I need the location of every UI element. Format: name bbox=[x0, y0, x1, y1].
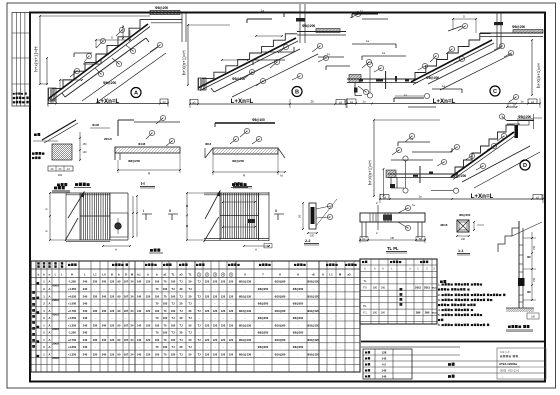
svg-text:240: 240 bbox=[83, 345, 88, 349]
stair B landing wall bbox=[296, 4, 305, 43]
section cut marks bbox=[142, 209, 178, 220]
edge detail labels bbox=[527, 255, 531, 294]
svg-text:Φ10@130: Φ10@130 bbox=[239, 280, 252, 284]
svg-text:6.: 6. bbox=[438, 323, 441, 327]
stair A landing right wall bbox=[182, 13, 186, 42]
1-1 column square bbox=[457, 220, 469, 232]
svg-text:·: · bbox=[215, 317, 216, 320]
table data text bbox=[37, 280, 341, 360]
svg-text:+2.700: +2.700 bbox=[68, 309, 77, 313]
svg-text:3Φ: 3Φ bbox=[299, 215, 302, 218]
2-2 leaders and callouts bbox=[316, 199, 337, 226]
title block bbox=[361, 342, 546, 380]
II-II slab bbox=[205, 148, 285, 158]
svg-text:4 5: 4 5 bbox=[382, 363, 386, 367]
stair B distribution rebar diagonal bbox=[232, 54, 318, 97]
svg-text:100: 100 bbox=[155, 323, 160, 327]
svg-text:b1: b1 bbox=[137, 273, 141, 277]
stair A tread dimensions bbox=[59, 25, 131, 88]
II-II callouts bbox=[230, 128, 262, 144]
stair D upper landing slab bbox=[507, 114, 542, 138]
svg-text:I: I bbox=[143, 209, 144, 213]
svg-text:240: 240 bbox=[83, 316, 88, 320]
svg-text:+4.050: +4.050 bbox=[68, 345, 77, 349]
svg-text:Φ8@200: Φ8@200 bbox=[258, 345, 269, 349]
stair A top slab rebar label bbox=[155, 6, 168, 10]
stair A section mark circle bbox=[131, 88, 141, 98]
plan 1 bottom dimension bbox=[102, 245, 163, 253]
svg-text:A: A bbox=[49, 338, 51, 342]
svg-text:100: 100 bbox=[155, 338, 160, 342]
stair section A bbox=[34, 6, 187, 107]
svg-text:·: · bbox=[215, 346, 216, 349]
svg-text:TL PL: TL PL bbox=[387, 246, 399, 251]
svg-text:Φ8@200: Φ8@200 bbox=[155, 6, 168, 10]
stair B upper rebar hooks bbox=[253, 47, 350, 70]
I-I slab bbox=[115, 147, 180, 160]
stair D mid rebar label bbox=[453, 174, 466, 178]
svg-text:-: - bbox=[298, 324, 299, 327]
svg-text:120: 120 bbox=[205, 294, 210, 298]
svg-text:-: - bbox=[313, 332, 314, 335]
svg-text:B: B bbox=[45, 208, 49, 210]
stair D section mark circle bbox=[520, 160, 530, 170]
I-I slab rebar labels bbox=[128, 142, 146, 163]
stair D step profile bbox=[455, 125, 515, 174]
stair C lower landing support bbox=[354, 83, 362, 96]
ramp slab diagonal bbox=[33, 120, 78, 143]
svg-text:1-1: 1-1 bbox=[458, 249, 464, 253]
svg-text:·: · bbox=[119, 346, 120, 349]
svg-text:+1.350: +1.350 bbox=[68, 287, 77, 291]
svg-text:120: 120 bbox=[146, 338, 151, 342]
stair A bent bars above steps bbox=[74, 53, 101, 64]
svg-text:120: 120 bbox=[213, 280, 218, 284]
svg-text:Φ8@200: Φ8@200 bbox=[258, 302, 269, 306]
stair plan view 2 bbox=[186, 183, 284, 252]
svg-text:180: 180 bbox=[373, 286, 378, 289]
stair C upper landing slab bbox=[480, 30, 543, 37]
detail ramp foundation bbox=[32, 120, 110, 193]
svg-text:·: · bbox=[126, 317, 127, 320]
TL beam section cut bbox=[376, 201, 378, 235]
svg-text:1s: 1s bbox=[362, 100, 366, 104]
svg-text:2Φ12: 2Φ12 bbox=[415, 286, 422, 289]
svg-text:-: - bbox=[280, 346, 281, 349]
svg-text:A: A bbox=[49, 294, 51, 298]
I-I callouts bbox=[146, 115, 175, 146]
stair B bottom support hatch bbox=[198, 78, 206, 90]
svg-text:100: 100 bbox=[163, 316, 168, 320]
svg-text:100: 100 bbox=[155, 353, 160, 357]
stair D landing rebar label bbox=[499, 103, 534, 121]
stair C lower landing rebar bars bbox=[352, 39, 406, 60]
svg-text:a1: a1 bbox=[164, 273, 167, 277]
svg-text:·: · bbox=[207, 317, 208, 320]
stair D landing rebar bars bbox=[391, 137, 452, 160]
svg-text:+4.050: +4.050 bbox=[68, 294, 77, 298]
svg-text:Φ8@200: Φ8@200 bbox=[293, 345, 304, 349]
svg-text:2900: 2900 bbox=[52, 342, 59, 346]
svg-text:2Φ8: 2Φ8 bbox=[425, 312, 430, 315]
svg-text:-: - bbox=[245, 303, 246, 306]
svg-text:120: 120 bbox=[221, 323, 226, 327]
svg-text:180: 180 bbox=[381, 286, 386, 289]
svg-text:Φ10@80: Φ10@80 bbox=[275, 309, 286, 313]
plan 2 inner dimensions bbox=[222, 201, 256, 228]
svg-text:230: 230 bbox=[93, 353, 98, 357]
TL beam callouts bbox=[398, 203, 415, 231]
II-II top bar bbox=[215, 123, 275, 127]
svg-text:120: 120 bbox=[205, 338, 210, 342]
svg-text:·: · bbox=[223, 332, 224, 335]
svg-text:240: 240 bbox=[83, 331, 88, 335]
foundation bottom dimensions bbox=[48, 166, 73, 177]
stair B section mark circle bbox=[292, 87, 302, 97]
svg-text:Φ8@200: Φ8@200 bbox=[258, 316, 269, 320]
svg-text:2Φ12: 2Φ12 bbox=[424, 286, 431, 289]
stair A main rebar diagonal bbox=[62, 38, 149, 97]
table header row 1 text bbox=[37, 262, 356, 268]
stair edge elevation detail bbox=[498, 221, 542, 332]
svg-text:a3: a3 bbox=[348, 273, 351, 277]
stair plan view 1 bbox=[45, 183, 164, 253]
svg-text:A3: A3 bbox=[162, 100, 166, 104]
svg-text:120: 120 bbox=[110, 280, 115, 284]
svg-text:4500: 4500 bbox=[52, 312, 59, 316]
svg-text:100: 100 bbox=[163, 287, 168, 291]
svg-text:·: · bbox=[199, 346, 200, 349]
stair A callouts bbox=[70, 27, 163, 77]
svg-text:120: 120 bbox=[146, 280, 151, 284]
svg-text:·: · bbox=[148, 288, 149, 291]
svg-text:·: · bbox=[112, 346, 113, 349]
svg-text:2.: 2. bbox=[438, 293, 441, 297]
svg-text:4500: 4500 bbox=[52, 283, 59, 287]
svg-text:230: 230 bbox=[93, 338, 98, 342]
svg-text:·: · bbox=[139, 288, 140, 291]
plan 2 bottom dimension bbox=[243, 244, 272, 252]
svg-text:·: · bbox=[148, 317, 149, 320]
svg-text:240: 240 bbox=[83, 287, 88, 291]
stair C step profile bbox=[415, 34, 491, 80]
svg-text:140: 140 bbox=[382, 375, 387, 379]
2-2 title bbox=[304, 239, 319, 245]
svg-text:240: 240 bbox=[83, 323, 88, 327]
svg-text:·: · bbox=[132, 346, 133, 349]
plan 2 right section marks bbox=[274, 209, 284, 220]
svg-text:+1.500: +1.500 bbox=[68, 302, 77, 306]
detail section II-II bbox=[205, 118, 286, 188]
svg-text:L+Xn=L: L+Xn=L bbox=[433, 98, 456, 105]
svg-text:B: B bbox=[295, 90, 299, 96]
svg-text:·: · bbox=[231, 288, 232, 291]
svg-text:142: 142 bbox=[382, 357, 387, 361]
svg-text:A: A bbox=[49, 316, 51, 320]
svg-text:Φ8@200: Φ8@200 bbox=[518, 115, 531, 119]
TL beam outline bbox=[360, 213, 425, 238]
title block row lines bbox=[412, 355, 545, 373]
svg-text:·: · bbox=[199, 288, 200, 291]
svg-text:120: 120 bbox=[110, 309, 115, 313]
stair C rebar diagonals bbox=[428, 48, 512, 90]
svg-text:·: · bbox=[95, 303, 96, 306]
svg-text:240: 240 bbox=[461, 238, 466, 241]
svg-text:-: - bbox=[313, 303, 314, 306]
svg-text:100: 100 bbox=[155, 294, 160, 298]
foundation hatched block bbox=[52, 144, 72, 160]
svg-text:h+X(n+1)=H: h+X(n+1)=H bbox=[536, 63, 541, 88]
plan 2 tread hatch bbox=[221, 193, 258, 239]
beam table grid bbox=[360, 259, 437, 324]
svg-text:2-2: 2-2 bbox=[305, 239, 311, 243]
svg-text:1B: 1B bbox=[390, 236, 394, 240]
detail section I-I bbox=[104, 115, 181, 188]
svg-text:100: 100 bbox=[163, 331, 168, 335]
svg-text:Φ10@120: Φ10@120 bbox=[307, 294, 319, 298]
plan 2 title bbox=[231, 183, 248, 188]
beam schedule table bbox=[360, 259, 438, 324]
svg-text:230: 230 bbox=[93, 323, 98, 327]
svg-text:AT94-12063a: AT94-12063a bbox=[499, 362, 517, 366]
stair B tread dimensions bbox=[221, 35, 283, 61]
beam table header text bbox=[362, 261, 435, 271]
svg-text:Φ10@80: Φ10@80 bbox=[275, 323, 286, 327]
svg-text:L1: L1 bbox=[329, 273, 333, 277]
svg-text:A: A bbox=[255, 248, 257, 252]
svg-text:180: 180 bbox=[373, 312, 378, 315]
svg-text:2900: 2900 bbox=[52, 298, 59, 302]
svg-text:240: 240 bbox=[83, 294, 88, 298]
svg-text:-: - bbox=[298, 310, 299, 313]
svg-text:h+X(n+1)=H: h+X(n+1)=H bbox=[182, 50, 187, 75]
svg-text:120: 120 bbox=[146, 309, 151, 313]
svg-text:Φ10@130: Φ10@130 bbox=[239, 309, 252, 313]
svg-text:-: - bbox=[245, 288, 246, 291]
svg-text:·: · bbox=[223, 288, 224, 291]
svg-text:Φ6: Φ6 bbox=[527, 255, 531, 259]
svg-text:h+X(n+1)=H: h+X(n+1)=H bbox=[368, 160, 373, 185]
svg-text:240: 240 bbox=[83, 302, 88, 306]
svg-text:100: 100 bbox=[155, 309, 160, 313]
svg-text:F.1: F.1 bbox=[363, 311, 367, 315]
TL beam bottom dimensions bbox=[359, 236, 426, 243]
stair D vertical dimension bbox=[368, 119, 441, 197]
table row lines bbox=[31, 269, 360, 365]
svg-text:·: · bbox=[104, 332, 105, 335]
plan 1 tread hatch bbox=[81, 193, 110, 240]
svg-text:·: · bbox=[199, 303, 200, 306]
svg-text:F.0: F.0 bbox=[363, 285, 367, 289]
svg-text:·: · bbox=[207, 346, 208, 349]
detail section 2-2 bbox=[299, 199, 338, 245]
svg-text:Φ10@130: Φ10@130 bbox=[239, 353, 252, 357]
stair A vertical dimension bbox=[34, 15, 151, 85]
edge detail dark band bbox=[518, 278, 525, 286]
svg-text:240: 240 bbox=[102, 353, 107, 357]
stair D callouts bbox=[392, 94, 519, 170]
svg-text:TL: TL bbox=[363, 279, 367, 283]
svg-text:120: 120 bbox=[205, 323, 210, 327]
2-2 dimensions bbox=[299, 202, 318, 237]
1-1 bottom dimension bbox=[456, 235, 470, 241]
svg-text:140: 140 bbox=[137, 338, 142, 342]
svg-text:A: A bbox=[115, 248, 117, 252]
svg-text:120: 120 bbox=[229, 323, 234, 327]
stair B bottom dimension bbox=[189, 98, 347, 108]
plan 2 left dimension bbox=[186, 192, 204, 241]
svg-text:+1.350: +1.350 bbox=[68, 323, 77, 327]
svg-text:4Φ16: 4Φ16 bbox=[440, 223, 448, 227]
svg-text:167: 167 bbox=[124, 294, 129, 298]
svg-text:3.: 3. bbox=[438, 298, 441, 302]
svg-text:240: 240 bbox=[83, 309, 88, 313]
svg-text:120: 120 bbox=[229, 294, 234, 298]
edge detail steps bbox=[498, 221, 519, 252]
svg-text:·: · bbox=[207, 288, 208, 291]
svg-text:·: · bbox=[112, 332, 113, 335]
svg-text:120: 120 bbox=[221, 280, 226, 284]
svg-text:Φ148: Φ148 bbox=[138, 142, 146, 146]
svg-text:230: 230 bbox=[93, 280, 98, 284]
svg-text:1a: 1a bbox=[261, 9, 265, 13]
svg-text:100: 100 bbox=[171, 338, 176, 342]
svg-text:240: 240 bbox=[83, 338, 88, 342]
svg-text:·: · bbox=[199, 332, 200, 335]
svg-text:167: 167 bbox=[124, 323, 129, 327]
svg-text:C: C bbox=[493, 89, 497, 95]
stair section D bbox=[368, 84, 544, 203]
svg-text:120: 120 bbox=[110, 294, 115, 298]
svg-text:Φ10@120: Φ10@120 bbox=[307, 309, 319, 313]
svg-text:Φ10@130: Φ10@130 bbox=[239, 338, 252, 342]
svg-text:1a: 1a bbox=[418, 195, 422, 199]
svg-text:·: · bbox=[139, 346, 140, 349]
svg-text:·: · bbox=[231, 317, 232, 320]
stair C callouts bbox=[358, 23, 514, 94]
svg-text:120: 120 bbox=[213, 353, 218, 357]
svg-text:167: 167 bbox=[124, 280, 129, 284]
stair A bottom support hatch bbox=[48, 88, 56, 101]
TL PL title bbox=[386, 246, 407, 253]
svg-text:·: · bbox=[104, 303, 105, 306]
svg-text:Φ148: Φ148 bbox=[92, 123, 99, 127]
plan 1 left dimension bbox=[45, 192, 67, 241]
svg-text:120: 120 bbox=[110, 338, 115, 342]
svg-text:Φ8@200: Φ8@200 bbox=[459, 213, 471, 217]
plan 2 flight break diagonals bbox=[204, 191, 220, 242]
svg-text:A: A bbox=[49, 323, 51, 327]
svg-text:120: 120 bbox=[110, 353, 115, 357]
svg-text:A: A bbox=[49, 345, 51, 349]
left signature strip bbox=[12, 13, 30, 107]
svg-text:A: A bbox=[49, 309, 51, 313]
stair D landing callout line bbox=[403, 156, 459, 193]
svg-text:240: 240 bbox=[83, 353, 88, 357]
svg-text:Φ10@120: Φ10@120 bbox=[307, 280, 319, 284]
svg-text:1a: 1a bbox=[442, 84, 446, 88]
II-II title bbox=[233, 181, 252, 188]
svg-text:140: 140 bbox=[137, 280, 142, 284]
svg-text:·: · bbox=[119, 288, 120, 291]
svg-text:-: - bbox=[280, 288, 281, 291]
svg-text:120: 120 bbox=[146, 294, 151, 298]
beam table frame bbox=[360, 259, 437, 324]
svg-text:-: - bbox=[280, 303, 281, 306]
stair B vertical dimension bbox=[182, 24, 231, 86]
TL beam stirrup marks bbox=[370, 213, 392, 222]
svg-text:120: 120 bbox=[146, 323, 151, 327]
svg-text:Φ8@200: Φ8@200 bbox=[293, 316, 304, 320]
svg-text:120: 120 bbox=[213, 323, 218, 327]
svg-text:·: · bbox=[223, 346, 224, 349]
stair C section mark circle bbox=[490, 86, 500, 96]
svg-text:-: - bbox=[263, 324, 264, 327]
svg-text:100: 100 bbox=[163, 345, 168, 349]
stair C right vertical dimension bbox=[531, 39, 541, 96]
svg-text:L+Xn=L: L+Xn=L bbox=[471, 193, 494, 200]
svg-text:·: · bbox=[112, 303, 113, 306]
stair C landing rebar label bbox=[512, 25, 525, 29]
ramp label bbox=[34, 133, 40, 136]
I-I title bbox=[140, 181, 155, 188]
stair section B bbox=[182, 4, 361, 108]
svg-text:B: B bbox=[111, 273, 113, 277]
I-I left rebar label bbox=[104, 137, 112, 141]
2-2 section body bbox=[309, 203, 316, 229]
plan 2 outline bbox=[204, 192, 269, 241]
svg-text:-1.200: -1.200 bbox=[68, 280, 76, 284]
stair C lower landing slab bbox=[347, 75, 418, 83]
svg-text:2005. Y02-12-0: 2005. Y02-12-0 bbox=[500, 369, 520, 373]
svg-text:240: 240 bbox=[102, 294, 107, 298]
svg-text:·: · bbox=[104, 317, 105, 320]
stair B slab soffit line bbox=[198, 38, 298, 91]
svg-text:-: - bbox=[245, 317, 246, 320]
stair B main rebar diagonal bbox=[211, 49, 300, 92]
svg-text:240: 240 bbox=[102, 309, 107, 313]
svg-text:140: 140 bbox=[137, 309, 142, 313]
svg-text:120: 120 bbox=[221, 353, 226, 357]
svg-text:120: 120 bbox=[229, 309, 234, 313]
stair A mid rebar label bbox=[103, 81, 116, 85]
svg-text:128: 128 bbox=[382, 351, 387, 355]
svg-text:Φ8@200: Φ8@200 bbox=[293, 302, 304, 306]
svg-text:100: 100 bbox=[171, 323, 176, 327]
svg-text:·: · bbox=[95, 346, 96, 349]
svg-text:Φ8.8: Φ8.8 bbox=[205, 142, 212, 146]
svg-text:-: - bbox=[245, 346, 246, 349]
svg-text:·: · bbox=[95, 317, 96, 320]
svg-text:A: A bbox=[49, 331, 51, 335]
stair D rebar diagonals bbox=[462, 146, 540, 188]
svg-text:240: 240 bbox=[102, 280, 107, 284]
1-1 rebar label bbox=[440, 213, 471, 227]
svg-text:·: · bbox=[139, 332, 140, 335]
svg-text:·: · bbox=[223, 303, 224, 306]
general notes text block bbox=[438, 280, 505, 327]
svg-text:-: - bbox=[280, 332, 281, 335]
svg-text:·: · bbox=[126, 288, 127, 291]
svg-text:-: - bbox=[298, 281, 299, 284]
svg-text:+2.700: +2.700 bbox=[68, 338, 77, 342]
svg-text:167: 167 bbox=[124, 353, 129, 357]
svg-text:240: 240 bbox=[83, 280, 88, 284]
table header row 2 text bbox=[38, 273, 351, 277]
svg-text:1s: 1s bbox=[310, 100, 314, 104]
svg-text:100: 100 bbox=[171, 353, 176, 357]
svg-text:230: 230 bbox=[93, 294, 98, 298]
